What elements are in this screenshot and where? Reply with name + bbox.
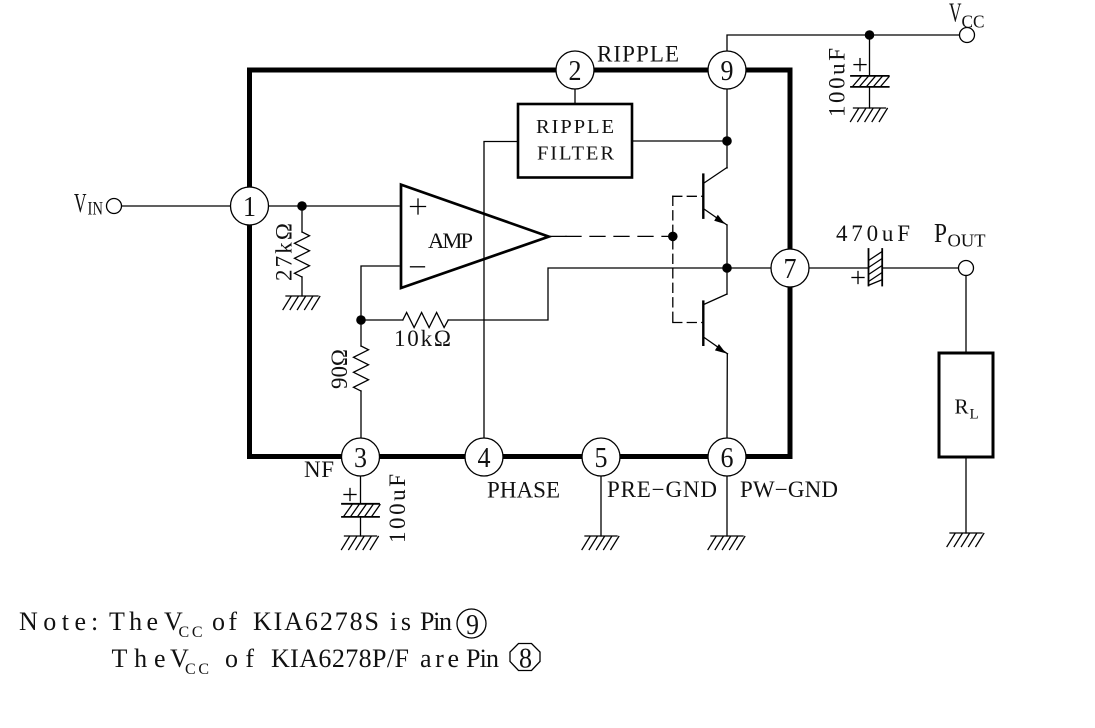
svg-text:AMP: AMP bbox=[428, 228, 473, 253]
svg-text:of: of bbox=[212, 607, 237, 636]
terminal VIN bbox=[107, 199, 122, 214]
resistor 10kOhm bbox=[403, 313, 448, 328]
capacitor 100uF at Vcc bbox=[851, 76, 889, 87]
wire cap to ground bbox=[869, 87, 871, 108]
wire pin5 to ground bbox=[600, 476, 602, 536]
label 10kOhm bbox=[394, 326, 451, 351]
note line 1 bbox=[19, 607, 452, 641]
label 100uF Vcc bbox=[825, 48, 850, 117]
svg-text:8: 8 bbox=[519, 643, 532, 675]
node input junction bbox=[297, 201, 307, 211]
svg-text:OUT: OUT bbox=[948, 231, 986, 251]
ground under NF cap bbox=[342, 536, 379, 550]
ground under RL bbox=[947, 533, 984, 547]
wire amp output dashed bbox=[549, 235, 673, 237]
label AMP bbox=[428, 228, 473, 253]
svg-text:5: 5 bbox=[595, 443, 608, 474]
label RL bbox=[955, 395, 979, 423]
note line 2 bbox=[112, 644, 500, 678]
svg-text:PRE−GND: PRE−GND bbox=[607, 477, 717, 502]
label Vcc bbox=[949, 0, 985, 32]
label RIPPLE (pin2) bbox=[597, 42, 679, 67]
resistor 27kOhm bbox=[295, 232, 310, 277]
svg-text:The: The bbox=[109, 607, 158, 636]
svg-text:V: V bbox=[949, 0, 962, 28]
label PHASE bbox=[487, 478, 560, 503]
transistor Q1 bbox=[703, 168, 727, 269]
svg-text:P: P bbox=[934, 218, 947, 248]
wire amp minus input bbox=[361, 266, 399, 320]
svg-text:10kΩ: 10kΩ bbox=[394, 326, 451, 351]
op-amp plus input sign bbox=[411, 199, 426, 214]
terminal Vcc bbox=[960, 28, 975, 43]
wire junction to 100uF cap bbox=[869, 35, 871, 76]
terminal Pout bbox=[959, 261, 974, 276]
IC boundary box bbox=[250, 70, 791, 457]
label RIPPLE FILTER bbox=[536, 116, 614, 165]
node feedback junction bbox=[356, 315, 366, 325]
wire pin9 to Vcc terminal bbox=[727, 35, 960, 50]
svg-text::: : bbox=[91, 607, 98, 636]
svg-text:R: R bbox=[955, 395, 969, 419]
capacitor 100uF at NF bbox=[342, 504, 380, 517]
octagon circled 8 bbox=[510, 643, 540, 675]
ground under Vcc cap bbox=[851, 108, 888, 122]
pin 2 bbox=[556, 51, 594, 89]
node rail junction bbox=[722, 136, 732, 146]
label 27kOhm bbox=[272, 223, 297, 281]
svg-text:CC: CC bbox=[962, 12, 985, 32]
svg-text:L: L bbox=[970, 407, 979, 423]
label PW-GND bbox=[740, 477, 838, 502]
resistor RL box bbox=[939, 353, 993, 457]
wire cap to Pout terminal bbox=[882, 267, 958, 269]
wire pin7 to 470uF cap bbox=[809, 267, 869, 269]
label 90Ohm bbox=[327, 349, 352, 389]
wire pin6 to ground bbox=[726, 476, 728, 536]
ground under 27k bbox=[283, 296, 320, 310]
label 470uF bbox=[836, 221, 910, 246]
op-amp AMP triangle bbox=[401, 185, 549, 288]
label Pout bbox=[934, 218, 986, 251]
svg-text:90Ω: 90Ω bbox=[327, 349, 352, 389]
node base drive bbox=[668, 232, 678, 242]
dashed darlington box bbox=[673, 196, 704, 322]
svg-text:2: 2 bbox=[569, 56, 582, 87]
svg-text:27kΩ: 27kΩ bbox=[272, 223, 297, 281]
wire 10k to pin7 net bbox=[448, 268, 771, 320]
svg-text:PHASE: PHASE bbox=[487, 478, 560, 503]
plus sign NF cap bbox=[344, 489, 356, 501]
svg-text:IN: IN bbox=[88, 200, 104, 220]
capacitor 470uF bbox=[869, 249, 883, 286]
svg-text:9: 9 bbox=[721, 56, 734, 87]
transistor Q2 bbox=[703, 268, 727, 438]
svg-text:PW−GND: PW−GND bbox=[740, 477, 838, 502]
wire pin2 to ripple filter bbox=[574, 89, 576, 104]
svg-text:RIPPLE: RIPPLE bbox=[536, 116, 614, 138]
node output junction bbox=[722, 263, 732, 273]
ground pin6 bbox=[708, 536, 745, 550]
wire pin3 to 100uF cap bbox=[360, 476, 362, 504]
svg-text:V: V bbox=[74, 188, 87, 218]
pin 1 bbox=[231, 187, 269, 225]
wire rail node to Q1 collector bbox=[726, 141, 728, 168]
plus sign Vcc cap bbox=[854, 59, 866, 71]
label VIN bbox=[74, 188, 103, 220]
pin 3 bbox=[342, 438, 380, 476]
pin 7 bbox=[771, 249, 809, 287]
ground pin5 bbox=[582, 536, 619, 550]
op-amp minus input sign bbox=[411, 266, 425, 268]
circled 9 bbox=[457, 609, 486, 641]
wire ripple filter to Vcc rail bbox=[632, 140, 727, 142]
resistor 90Ohm bbox=[354, 320, 369, 438]
wire cap to ground bbox=[360, 517, 362, 536]
svg-text:are: are bbox=[420, 644, 459, 673]
wire junction to 10k resistor bbox=[361, 319, 403, 321]
svg-text:470uF: 470uF bbox=[836, 221, 910, 246]
svg-text:100uF: 100uF bbox=[825, 48, 850, 117]
wire pin4 to ripple filter bbox=[484, 142, 518, 439]
svg-text:KIA6278P/F: KIA6278P/F bbox=[271, 644, 409, 673]
svg-text:Pin: Pin bbox=[420, 607, 452, 636]
svg-text:1: 1 bbox=[243, 192, 256, 223]
svg-text:The: The bbox=[112, 644, 166, 673]
pin 6 bbox=[708, 438, 746, 476]
svg-text:3: 3 bbox=[354, 443, 367, 474]
svg-text:6: 6 bbox=[721, 443, 734, 474]
svg-text:7: 7 bbox=[784, 254, 797, 285]
svg-text:CC: CC bbox=[179, 624, 203, 641]
plus sign 470uF bbox=[852, 272, 864, 284]
svg-text:Pin: Pin bbox=[466, 644, 499, 673]
wire 27k to ground bbox=[301, 277, 303, 296]
wire pin9 down to rail node bbox=[726, 89, 728, 142]
svg-text:9: 9 bbox=[466, 609, 479, 641]
label PRE-GND bbox=[607, 477, 717, 502]
wire Pout to RL bbox=[965, 276, 967, 354]
svg-text:100uF: 100uF bbox=[385, 474, 410, 543]
svg-text:of: of bbox=[225, 644, 254, 673]
svg-text:RIPPLE: RIPPLE bbox=[597, 42, 679, 67]
label NF bbox=[304, 457, 334, 482]
wire VIN to pin 1 bbox=[122, 205, 232, 207]
pin 4 bbox=[465, 438, 503, 476]
node Vcc cap junction bbox=[865, 30, 875, 40]
svg-text:Note: Note bbox=[19, 607, 86, 636]
wire junction to 27k resistor bbox=[301, 206, 303, 232]
svg-text:CC: CC bbox=[185, 661, 209, 678]
wire RL to ground bbox=[965, 457, 967, 533]
ripple filter box U1 bbox=[518, 104, 632, 178]
svg-text:is: is bbox=[390, 607, 411, 636]
label 100uF NF bbox=[385, 474, 410, 543]
wire pin1 to amp + input bbox=[269, 205, 399, 207]
svg-text:KIA6278S: KIA6278S bbox=[253, 607, 379, 636]
pin 5 bbox=[582, 438, 620, 476]
svg-text:NF: NF bbox=[304, 457, 334, 482]
pin 9 bbox=[708, 51, 746, 89]
svg-text:4: 4 bbox=[478, 443, 491, 474]
